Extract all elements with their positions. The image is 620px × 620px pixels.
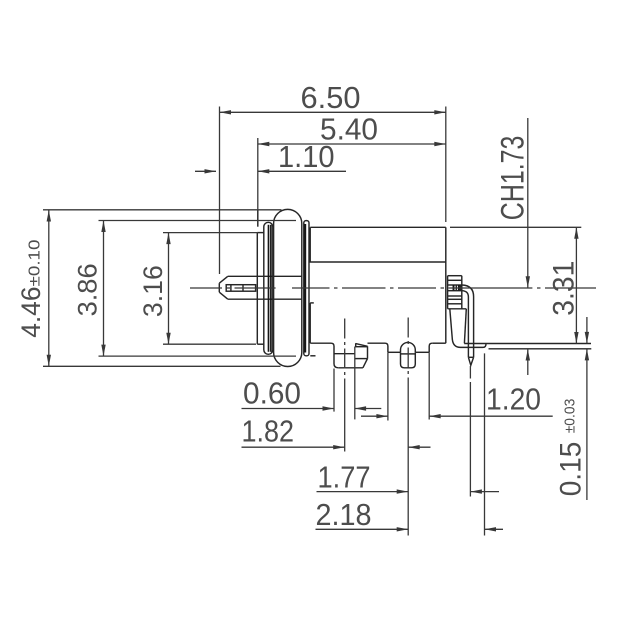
centerline terminal pin xyxy=(469,366,471,382)
tab thick line xyxy=(304,224,306,353)
leg1 plate corner diagonal xyxy=(363,359,368,368)
body bottom left segment xyxy=(310,342,328,344)
terminal pin tick xyxy=(468,356,473,358)
svg-text:1.20: 1.20 xyxy=(486,382,541,417)
terminal pin taper xyxy=(468,357,473,365)
pin slot xyxy=(226,285,255,292)
terminal block bottom xyxy=(448,308,467,310)
terminal block left edge xyxy=(447,276,449,309)
dim 1.82 leader xyxy=(242,446,345,448)
arrow 6.50 right xyxy=(434,110,446,114)
ext line notch2 left xyxy=(387,352,389,420)
arrow 6.50 left xyxy=(220,110,232,114)
lower tab top corner tick xyxy=(310,302,314,304)
ext line washer top xyxy=(163,232,257,234)
ext line washer bottom xyxy=(163,343,256,345)
terminal lug fillet xyxy=(452,340,460,347)
bushing front line lower xyxy=(256,233,258,345)
body left edge lower xyxy=(309,303,311,343)
arrow CH1.73 up xyxy=(526,349,530,361)
arrow 2.18 left outside xyxy=(397,527,409,531)
svg-text:3.16: 3.16 xyxy=(138,265,168,317)
dim 3.86 line xyxy=(103,221,105,357)
arrow 2.18 right outside xyxy=(485,527,497,531)
arrow 5.40 right xyxy=(434,142,446,146)
dim 0.15 lower tail xyxy=(586,349,588,500)
arrow 1.77 left outside xyxy=(397,489,409,493)
notch2 top left xyxy=(388,351,401,353)
dim CH1.73 lower tail xyxy=(527,349,529,375)
centerline leg1 xyxy=(344,319,346,382)
pin top edge xyxy=(228,275,302,277)
arrow 3.16 bottom xyxy=(166,333,170,345)
flange stadium xyxy=(274,209,302,366)
dim 1.82 right tail xyxy=(408,446,430,448)
notch2 right wall corner xyxy=(429,343,432,352)
dim 1.77 right tail xyxy=(470,491,499,493)
svg-text:6.50: 6.50 xyxy=(301,80,361,115)
svg-text:±0.10: ±0.10 xyxy=(27,239,44,286)
ext line notch1 right xyxy=(354,347,356,420)
bushing cylinder top edge xyxy=(257,232,264,234)
pin slot inner line 2 xyxy=(242,285,244,292)
centerline leg2 xyxy=(407,318,409,382)
arrow 1.20 right outside xyxy=(429,414,441,418)
terminal foot top line xyxy=(464,343,591,345)
tab capsule xyxy=(304,221,309,356)
arrow 0.15 down xyxy=(585,332,589,344)
svg-text:4.46: 4.46 xyxy=(16,287,46,338)
ext line bushing face vertical xyxy=(257,138,259,209)
pin chamfer bottom xyxy=(219,292,228,299)
terminal rib 3 xyxy=(448,298,462,300)
terminal block right edge xyxy=(461,276,463,309)
notch2 top right xyxy=(415,351,429,353)
dim 2.18 leader xyxy=(316,528,409,530)
pad line xyxy=(489,348,592,350)
svg-text:CH1.73: CH1.73 xyxy=(495,136,531,221)
arrow CH1.73 down xyxy=(526,276,530,288)
terminal crimp row top xyxy=(448,284,462,286)
dim 6.50 line xyxy=(220,111,446,113)
dim 1.10 tails xyxy=(195,170,346,172)
terminal foot bottom xyxy=(461,344,487,348)
washer capsule xyxy=(264,222,273,354)
ext line tab bottom xyxy=(99,355,297,357)
ext line tab top xyxy=(99,220,297,222)
dim 1.20 left tail xyxy=(361,415,388,417)
leg2 inner line xyxy=(401,353,416,355)
svg-text:3.86: 3.86 xyxy=(73,263,103,316)
arrow 1.10 right outside xyxy=(258,169,270,173)
arrow 1.82 right outside xyxy=(408,445,420,449)
ext line body top right xyxy=(450,226,581,228)
leg1 plate mid line xyxy=(355,358,368,360)
dim CH1.73 leader xyxy=(527,118,529,288)
svg-text:2.18: 2.18 xyxy=(316,497,372,532)
body bottom mid segment xyxy=(368,342,386,344)
dim 1.20 leader xyxy=(429,415,553,417)
body right edge xyxy=(445,227,447,343)
centerline horizontal xyxy=(190,287,596,289)
notch1 top xyxy=(334,353,355,355)
leg1 plate top diagonal xyxy=(356,344,368,347)
arrow 3.16 top xyxy=(166,233,170,245)
dim 5.40 line xyxy=(258,143,446,145)
arrow 3.86 top xyxy=(101,221,105,233)
svg-text:0.60: 0.60 xyxy=(243,376,301,411)
ext line notch1 left xyxy=(333,369,335,412)
arrow 0.60 right outside xyxy=(355,406,367,410)
pin tip face xyxy=(218,283,220,292)
ext line notch2 right xyxy=(428,352,430,419)
arrow 5.40 left xyxy=(258,142,270,146)
ext line 2.18 right xyxy=(484,353,486,535)
terminal bend outer xyxy=(462,285,474,357)
dim 0.15 upper tail xyxy=(586,317,588,343)
arrow 3.31 bottom xyxy=(574,332,578,344)
arrow 4.46 top xyxy=(47,210,51,222)
arrow 0.15 up xyxy=(585,349,589,361)
arrow 1.82 left outside xyxy=(333,445,345,449)
arrow 0.60 left outside xyxy=(323,406,335,410)
dim 3.16 line xyxy=(168,233,170,345)
terminal crimp divider 3 xyxy=(458,285,460,291)
pin slot inner line xyxy=(230,285,232,292)
terminal rib 2 xyxy=(448,295,462,297)
leg2 dome xyxy=(401,342,416,352)
dim 4.46 line xyxy=(48,210,50,366)
arrow 4.46 bottom xyxy=(47,355,51,367)
arrow 1.20 left outside xyxy=(376,414,388,418)
ext line flange bottom xyxy=(43,365,281,367)
terminal block top xyxy=(448,275,462,277)
leg1 plate small left vert xyxy=(355,343,357,347)
svg-text:1.10: 1.10 xyxy=(278,139,335,174)
terminal lug left edge xyxy=(450,309,453,340)
terminal crimp divider 2 xyxy=(455,285,457,291)
dim 3.31 line xyxy=(575,227,577,343)
bushing front line upper xyxy=(257,209,259,226)
ext line body right vertical xyxy=(445,107,447,223)
terminal crimp row bottom xyxy=(448,290,462,292)
svg-text:0.15: 0.15 xyxy=(555,442,588,497)
dim 1.77 leader xyxy=(317,491,409,493)
body left edge upper xyxy=(309,227,311,262)
pin chamfer top xyxy=(219,276,228,283)
body top edge xyxy=(310,226,446,228)
tab bottom right tick xyxy=(310,355,315,357)
notch1 left wall with corner xyxy=(328,343,338,368)
terminal bend inner xyxy=(462,291,468,358)
body internal line xyxy=(309,261,446,263)
arrow 3.31 top xyxy=(574,227,578,239)
ext line flange top xyxy=(43,209,282,211)
notch2 left wall corner xyxy=(385,343,388,352)
terminal lug right edge xyxy=(464,309,466,344)
leg1 plate right edge xyxy=(367,346,369,358)
terminal crimp dark cell xyxy=(460,285,462,291)
terminal rib 4 xyxy=(448,303,462,305)
leg1 plate top edge xyxy=(355,346,368,348)
terminal crimp divider 1 xyxy=(453,285,455,291)
washer thick line 1 xyxy=(268,225,270,352)
svg-text:±0.03: ±0.03 xyxy=(562,399,579,434)
leg2 sides xyxy=(401,352,416,368)
dim 2.18 right tail xyxy=(485,528,504,530)
svg-text:1.77: 1.77 xyxy=(318,460,371,495)
pin bottom edge xyxy=(228,298,302,300)
dim 0.60 right tail xyxy=(355,408,382,410)
arrow 1.10 left outside xyxy=(205,169,217,173)
arrow 3.86 bottom xyxy=(101,345,105,357)
bushing cylinder bottom edge xyxy=(257,343,264,345)
body bottom right segment xyxy=(432,342,446,344)
arrow 1.77 right outside xyxy=(470,489,482,493)
washer thick line 2 xyxy=(270,225,272,352)
leg1 pocket bottom xyxy=(338,367,363,369)
terminal rib 1 xyxy=(448,279,462,281)
svg-text:1.82: 1.82 xyxy=(242,414,295,449)
svg-text:3.31: 3.31 xyxy=(548,261,581,316)
ext line pin tip vertical xyxy=(219,107,221,275)
dim 0.60 leader xyxy=(242,408,335,410)
